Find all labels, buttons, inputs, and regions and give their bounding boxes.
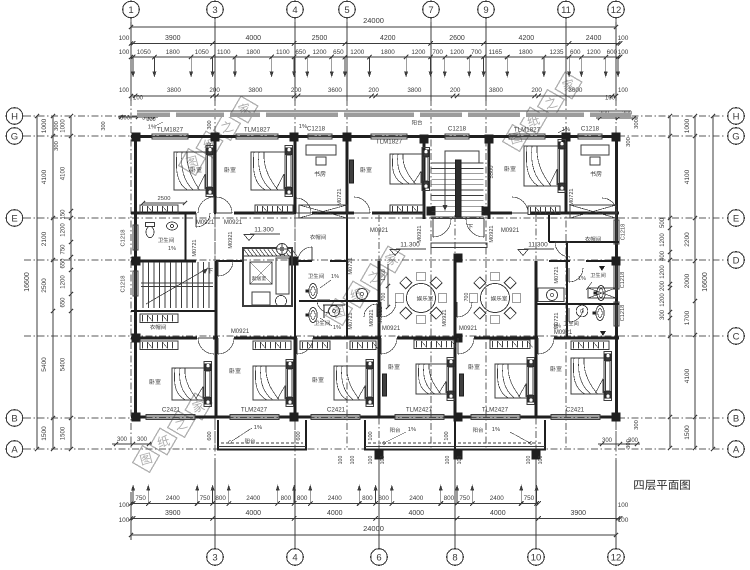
svg-text:150: 150 <box>61 209 67 220</box>
svg-text:6: 6 <box>376 552 381 563</box>
label bath right b <box>563 321 578 326</box>
svg-text:C1218: C1218 <box>448 126 467 133</box>
svg-text:1200: 1200 <box>587 49 602 56</box>
svg-text:C2421: C2421 <box>162 407 181 414</box>
svg-text:100: 100 <box>119 517 130 524</box>
dim left total 16600 <box>36 116 38 449</box>
grid line A horizontal <box>24 448 726 450</box>
svg-text:800: 800 <box>362 495 373 502</box>
svg-text:2400: 2400 <box>490 495 505 502</box>
grid line H horizontal <box>24 115 726 117</box>
svg-text:TLM1827: TLM1827 <box>514 127 541 134</box>
label bath mid b <box>314 320 330 325</box>
svg-text:11.300: 11.300 <box>254 227 274 234</box>
grid line B horizontal <box>24 417 726 419</box>
closet x-box study mid <box>299 205 347 218</box>
svg-text:200: 200 <box>450 87 461 94</box>
svg-text:1500: 1500 <box>61 426 67 440</box>
svg-text:4000: 4000 <box>327 510 343 517</box>
door study mid <box>296 198 311 213</box>
svg-text:5: 5 <box>344 5 349 16</box>
svg-text:M0721: M0721 <box>348 257 354 274</box>
watermark center <box>322 243 408 329</box>
svg-text:D: D <box>733 255 740 266</box>
svg-text:100: 100 <box>605 96 616 102</box>
svg-text:300: 300 <box>117 437 128 443</box>
grid bubble 3 top <box>207 1 224 18</box>
svg-text:600: 600 <box>296 431 302 440</box>
svg-text:700: 700 <box>432 49 443 56</box>
window TLM1827 on G wall <box>371 134 407 139</box>
svg-text:2200: 2200 <box>684 232 691 247</box>
svg-text:1800: 1800 <box>166 49 181 56</box>
door bedroom4 from hall <box>512 197 528 213</box>
door bath mid b <box>317 300 330 313</box>
svg-text:1%: 1% <box>299 124 307 130</box>
window TLM1827 on G wall <box>152 134 188 139</box>
grid bubble 7 top <box>423 1 440 18</box>
dim top total 24000 <box>131 26 616 28</box>
svg-text:1800: 1800 <box>519 49 534 56</box>
balcony A outline <box>217 420 219 450</box>
label bath mid a <box>308 273 324 278</box>
grid bubble 4 bottom <box>287 549 304 566</box>
sink bath top-left <box>167 222 178 230</box>
svg-text:1200: 1200 <box>411 49 426 56</box>
svg-text:1000: 1000 <box>684 118 691 133</box>
svg-text:200: 200 <box>368 87 379 94</box>
lightwell sitting room center <box>243 248 292 306</box>
svg-text:C2421: C2421 <box>327 407 346 414</box>
svg-text:M0921: M0921 <box>378 306 384 323</box>
svg-text:16600: 16600 <box>24 272 31 292</box>
window TLM2427 on B wall <box>230 414 279 419</box>
svg-text:2100: 2100 <box>41 231 48 246</box>
wall left exterior <box>134 134 137 418</box>
door bath right b <box>569 308 583 322</box>
svg-text:4000: 4000 <box>490 510 506 517</box>
svg-text:2500: 2500 <box>158 196 171 202</box>
svg-text:650: 650 <box>333 49 344 56</box>
grid bubble C right <box>728 328 745 345</box>
svg-text:M0921: M0921 <box>382 326 401 332</box>
svg-text:3800: 3800 <box>489 87 504 94</box>
svg-text:C2421: C2421 <box>566 407 585 414</box>
grid bubble E right <box>728 210 745 227</box>
svg-text:400: 400 <box>660 250 666 261</box>
svg-text:TLM1827: TLM1827 <box>244 127 271 134</box>
svg-text:5400: 5400 <box>41 357 48 372</box>
svg-text:3: 3 <box>212 5 217 16</box>
svg-text:600: 600 <box>207 431 213 440</box>
svg-text:M0921: M0921 <box>369 309 375 326</box>
window C1218 on G wall <box>445 134 469 139</box>
sink niche room10 <box>547 290 558 301</box>
svg-text:300: 300 <box>54 141 60 151</box>
door entertainment room 1 <box>381 302 396 317</box>
svg-text:12: 12 <box>611 5 622 16</box>
svg-text:300: 300 <box>137 437 148 443</box>
svg-text:H: H <box>733 111 740 122</box>
svg-text:300: 300 <box>634 420 640 430</box>
label 卧室 r4b <box>230 368 241 374</box>
svg-text:1500: 1500 <box>684 425 691 440</box>
svg-text:100: 100 <box>618 49 629 56</box>
closet hangers bedroom3 E wall <box>390 205 423 214</box>
svg-text:M0921: M0921 <box>370 228 389 234</box>
label 卧室 r1a <box>191 167 202 173</box>
closet x-box study right <box>570 205 616 218</box>
window TLM2427 on B wall <box>471 414 520 419</box>
top balcony outer rail <box>137 110 631 112</box>
svg-text:1200: 1200 <box>350 49 365 56</box>
svg-text:2500: 2500 <box>41 278 48 293</box>
svg-text:2400: 2400 <box>586 35 602 42</box>
svg-text:M0921: M0921 <box>228 231 234 248</box>
svg-text:3800: 3800 <box>248 87 263 94</box>
bed bedroom 4 (grid9-11) top row <box>524 146 558 186</box>
window C1218 left wall b <box>133 271 138 296</box>
svg-text:3600: 3600 <box>328 87 343 94</box>
svg-text:1360: 1360 <box>381 269 387 281</box>
grid line D horizontal <box>24 259 726 261</box>
grid bubble 6 bottom <box>371 549 388 566</box>
grid line 10 vertical bottom <box>535 215 537 548</box>
window TLM1827 on G wall <box>509 134 545 139</box>
label 卧室 r1e <box>505 166 516 172</box>
svg-text:750: 750 <box>135 495 146 502</box>
svg-text:750: 750 <box>61 244 67 255</box>
stair double door left <box>433 219 451 237</box>
svg-text:C1218: C1218 <box>620 272 626 288</box>
label 阳台 top-mid <box>412 120 422 125</box>
svg-text:100: 100 <box>444 431 450 440</box>
door bedroom3 bottom <box>297 338 313 354</box>
svg-text:M0921: M0921 <box>501 228 520 234</box>
svg-text:700: 700 <box>464 293 470 302</box>
grid bubble B right <box>728 410 745 427</box>
svg-text:E: E <box>733 213 739 224</box>
grid line 4 vertical bottom <box>294 215 296 548</box>
svg-text:100: 100 <box>338 456 344 465</box>
svg-text:16600: 16600 <box>702 272 709 292</box>
svg-text:1100: 1100 <box>276 49 290 56</box>
door sink room 5-6 <box>364 304 377 317</box>
svg-text:700: 700 <box>381 293 387 302</box>
dark wardrobe bar bottom room4 <box>460 374 464 396</box>
dim bottom extension lines <box>214 460 216 548</box>
svg-text:100: 100 <box>538 456 544 465</box>
svg-text:100: 100 <box>618 35 629 42</box>
svg-text:100: 100 <box>445 456 451 465</box>
door bedroom1 bottom <box>198 338 214 354</box>
svg-text:650: 650 <box>295 49 306 56</box>
svg-text:M0921: M0921 <box>554 330 573 336</box>
grid bubble 11 top <box>558 1 575 18</box>
window TLM2427 on B wall <box>395 414 444 419</box>
stair left (lower run) <box>142 262 144 308</box>
svg-text:C: C <box>733 331 740 342</box>
svg-text:500: 500 <box>660 217 666 228</box>
bed bedroom 6 bottom row <box>571 358 604 394</box>
svg-text:4100: 4100 <box>684 368 691 383</box>
svg-text:1%: 1% <box>331 274 339 280</box>
grid line 5 vertical <box>346 18 348 448</box>
svg-text:2400: 2400 <box>246 495 261 502</box>
svg-text:11.300: 11.300 <box>528 242 548 249</box>
svg-text:TLM1827: TLM1827 <box>376 139 403 146</box>
grid bubble B left <box>6 410 23 427</box>
door bedroom2 bottom <box>218 338 234 354</box>
walls row4 bedroom dividers <box>215 338 218 417</box>
bed bedroom 1 top row <box>174 152 206 190</box>
grid bubble G right <box>728 128 745 145</box>
svg-text:750: 750 <box>200 495 211 502</box>
closet hangers bedroom3 C wall <box>300 341 330 350</box>
door bedroom1 from hall <box>198 197 214 213</box>
label 卧室 r1d <box>361 167 372 173</box>
grid bubble A left <box>6 441 23 458</box>
door bath mid a <box>298 247 312 261</box>
svg-text:300: 300 <box>634 119 640 129</box>
svg-text:100: 100 <box>618 502 629 509</box>
squat toilet bath right a <box>597 286 605 301</box>
label 卧室 r1b <box>225 167 236 173</box>
svg-text:750: 750 <box>459 495 470 502</box>
svg-text:4100: 4100 <box>684 169 691 184</box>
closet hangers cloak room b <box>140 341 178 350</box>
svg-text:M0921: M0921 <box>489 225 495 242</box>
dim right total 16600 <box>712 116 714 449</box>
svg-text:12: 12 <box>611 552 622 563</box>
svg-text:1%: 1% <box>492 427 500 433</box>
svg-text:1200: 1200 <box>61 223 67 237</box>
toilet bath top-left <box>146 223 155 238</box>
svg-text:C1218: C1218 <box>121 275 127 292</box>
svg-text:100: 100 <box>350 456 356 465</box>
door bedroom5 bottom <box>458 338 474 354</box>
svg-text:1%: 1% <box>578 276 586 282</box>
svg-text:4000: 4000 <box>245 510 261 517</box>
svg-text:24000: 24000 <box>363 16 384 25</box>
svg-text:5400: 5400 <box>61 357 67 371</box>
svg-text:M0921: M0921 <box>442 309 448 326</box>
door bath right a <box>569 268 583 282</box>
svg-text:650: 650 <box>61 258 67 269</box>
svg-text:300: 300 <box>626 137 632 147</box>
svg-text:300: 300 <box>146 117 155 123</box>
svg-text:1200: 1200 <box>660 293 666 307</box>
window C2421 on B wall <box>146 414 195 419</box>
closet hangers bedroom5 E wall <box>528 206 560 215</box>
svg-text:1200: 1200 <box>61 275 67 289</box>
svg-text:100: 100 <box>457 456 463 465</box>
svg-text:B: B <box>11 413 17 424</box>
wall right exterior <box>615 134 618 418</box>
grid line 12 vertical bottom <box>615 215 617 548</box>
grid line C horizontal <box>24 335 726 337</box>
balcony B label <box>390 427 400 432</box>
grid bubble A right <box>728 441 745 458</box>
dim bottom total 24000 <box>131 534 616 536</box>
label 卧室 r4e <box>469 364 480 370</box>
svg-text:200: 200 <box>291 87 302 94</box>
bed bedroom 4 bottom row <box>416 364 447 394</box>
svg-text:4: 4 <box>292 552 297 563</box>
watermark bottom-left <box>129 390 215 476</box>
stair hall landing strip <box>431 243 487 248</box>
door cloak right <box>555 242 570 257</box>
svg-text:G: G <box>732 131 739 142</box>
svg-text:300: 300 <box>660 309 666 320</box>
label 书房 r1f <box>590 171 601 177</box>
svg-text:2500: 2500 <box>312 35 328 42</box>
squat toilet bath mid a <box>309 284 317 299</box>
grid bubble G left <box>6 128 23 145</box>
closet hangers bedroom4 C wall <box>414 340 454 349</box>
label 卧室 r4f <box>551 366 562 372</box>
door bath top-left <box>196 213 210 227</box>
dim right fine <box>669 116 671 448</box>
svg-text:11.300: 11.300 <box>400 242 420 249</box>
label 书房 r1c <box>314 171 325 177</box>
grid line 8 vertical bottom <box>454 215 456 548</box>
svg-text:E: E <box>11 213 17 224</box>
svg-text:TLM2427: TLM2427 <box>406 407 433 414</box>
grid bubble 8 bottom <box>447 549 464 566</box>
svg-text:200: 200 <box>531 87 542 94</box>
svg-text:800: 800 <box>444 495 455 502</box>
grid line 1 vertical <box>130 18 132 448</box>
svg-text:M0721: M0721 <box>569 188 575 205</box>
grid bubble H left <box>6 108 23 125</box>
label 衣帽间 left <box>150 324 166 329</box>
dim right majors <box>694 116 696 448</box>
window C2421 on B wall <box>551 414 600 419</box>
svg-text:1%: 1% <box>168 246 176 252</box>
svg-text:C1218: C1218 <box>307 126 326 133</box>
svg-text:3800: 3800 <box>167 87 182 94</box>
vent triangle right a <box>599 266 605 271</box>
window C1218 on G wall <box>308 134 332 139</box>
svg-text:C1218: C1218 <box>121 229 127 246</box>
svg-text:100: 100 <box>618 517 629 524</box>
door entertainment room 2 <box>457 302 472 317</box>
svg-text:800: 800 <box>297 495 308 502</box>
dim left fine <box>70 116 72 449</box>
grid bubble E left <box>6 210 23 227</box>
svg-text:1500: 1500 <box>41 426 48 441</box>
label 卧室 r4a <box>150 379 161 385</box>
svg-text:3900: 3900 <box>165 35 181 42</box>
grid line 7 vertical <box>430 18 432 448</box>
window C1218 on G wall <box>578 134 602 139</box>
svg-text:8: 8 <box>452 552 457 563</box>
svg-text:M0721: M0721 <box>348 312 354 329</box>
window C1218 right wall c <box>614 302 619 326</box>
svg-text:2400: 2400 <box>328 495 343 502</box>
label 卧室 r4c <box>313 377 324 383</box>
svg-text:1200: 1200 <box>312 49 327 56</box>
dim left majors <box>52 116 54 449</box>
svg-text:2600: 2600 <box>449 35 465 42</box>
grid line 11 vertical <box>565 18 567 448</box>
svg-text:4000: 4000 <box>409 510 425 517</box>
door bedroom2 from hall <box>216 197 232 213</box>
walls row2 vertical <box>184 213 186 261</box>
svg-text:100: 100 <box>119 502 130 509</box>
grid line E horizontal <box>24 217 726 219</box>
squat toilet bath mid b <box>309 308 317 323</box>
dim top extension lines <box>130 22 132 101</box>
svg-text:2000: 2000 <box>684 273 691 288</box>
grid bubble 5 top <box>339 1 356 18</box>
svg-text:3: 3 <box>212 552 217 563</box>
grid line 12 vertical <box>615 18 617 448</box>
grid bubble 10 bottom <box>528 549 545 566</box>
svg-text:5500: 5500 <box>489 166 495 179</box>
svg-text:1%: 1% <box>333 325 341 331</box>
svg-text:200: 200 <box>660 280 666 291</box>
window C2421 on B wall <box>311 414 360 419</box>
svg-text:1200: 1200 <box>660 265 666 279</box>
closet x-box right bath <box>588 288 616 298</box>
dim top majors <box>131 43 620 45</box>
svg-text:100: 100 <box>368 431 374 440</box>
svg-text:TLM2427: TLM2427 <box>241 407 268 414</box>
svg-text:1%: 1% <box>254 425 262 431</box>
svg-text:C1218: C1218 <box>620 305 626 321</box>
svg-text:300: 300 <box>54 121 60 131</box>
wall D segments <box>131 260 196 263</box>
svg-text:1100: 1100 <box>217 49 231 56</box>
grid bubble H right <box>728 108 745 125</box>
svg-text:H: H <box>11 111 18 122</box>
svg-text:800: 800 <box>281 495 292 502</box>
svg-text:C1218: C1218 <box>581 126 600 133</box>
svg-text:100: 100 <box>119 35 130 42</box>
svg-text:800: 800 <box>215 495 226 502</box>
stair core walls <box>423 136 426 219</box>
structural columns <box>132 133 141 142</box>
svg-text:4000: 4000 <box>245 35 261 42</box>
bed bedroom 5 bottom row <box>495 364 527 398</box>
dim 2500 bedroom1 <box>143 202 185 204</box>
dim top wall dims <box>131 95 616 97</box>
svg-text:M0921: M0921 <box>459 326 478 332</box>
svg-text:100: 100 <box>526 456 532 465</box>
door bedroom6 bottom <box>538 338 554 354</box>
bed bedroom 2 bottom row <box>253 366 286 400</box>
svg-text:24000: 24000 <box>363 524 384 533</box>
door bedroom4 bottom <box>381 338 397 354</box>
balcony A label <box>245 438 255 443</box>
svg-text:M0921: M0921 <box>196 220 215 226</box>
svg-text:4200: 4200 <box>519 35 535 42</box>
bed bedroom 3 (grid5-7) top row <box>390 154 422 184</box>
svg-text:M0721: M0721 <box>554 312 560 329</box>
svg-text:1800: 1800 <box>381 49 396 56</box>
closet hangers bedroom5 C wall <box>490 340 530 349</box>
sink bath right b <box>576 305 588 317</box>
svg-text:300: 300 <box>207 120 213 129</box>
svg-text:700: 700 <box>471 49 482 56</box>
title 四层平面图 <box>634 480 690 490</box>
svg-text:1: 1 <box>128 5 133 16</box>
top balcony gray band <box>137 112 631 117</box>
stair center (double run) <box>432 162 484 164</box>
svg-text:10: 10 <box>531 552 542 563</box>
